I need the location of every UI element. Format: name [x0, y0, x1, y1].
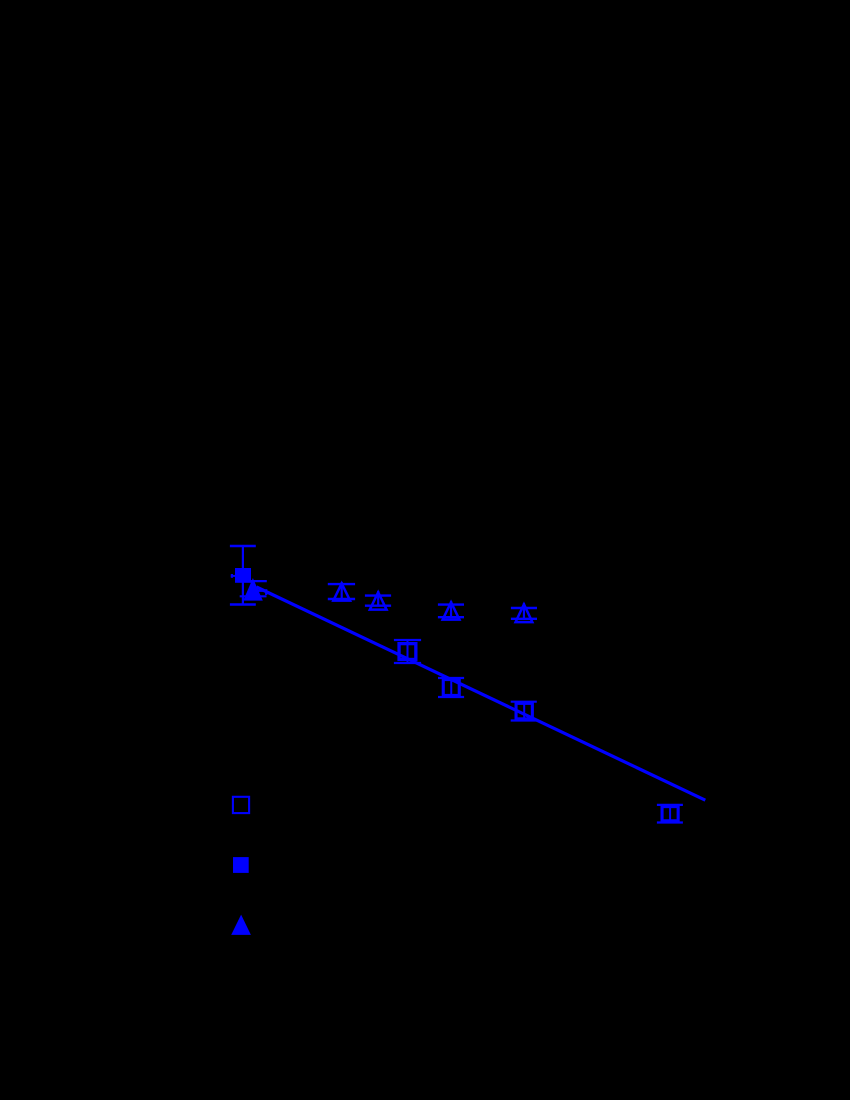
point S2 y-error top cap — [438, 677, 464, 679]
point T4 y-error bottom cap — [511, 618, 537, 620]
point T2 y-error bottom cap — [365, 605, 391, 607]
point P2 marker filled triangle — [243, 578, 263, 601]
point T1 marker open triangle — [333, 583, 350, 600]
point P1 y-error top cap — [230, 545, 256, 547]
point P1 marker filled square — [235, 568, 251, 583]
point T2 y-error line — [377, 591, 379, 606]
point S1 y-error bottom cap — [394, 662, 421, 664]
point T1 y-error top cap — [328, 583, 355, 585]
legend open square marker — [233, 797, 249, 813]
point S4 y-error line — [669, 805, 671, 823]
point S4 y-error top cap — [657, 804, 683, 806]
point T4 y-error line — [523, 603, 525, 619]
point P1 y-error bottom cap — [230, 603, 256, 605]
point S4 y-error bottom cap — [657, 821, 683, 823]
point P1 y-error bar — [242, 546, 244, 605]
point P2 x-error stub — [253, 590, 266, 592]
point T3 y-error line — [450, 601, 452, 617]
point P1 x-error stub — [231, 575, 236, 577]
point S3 y-error top cap — [511, 701, 537, 703]
point S4 marker open square — [662, 807, 678, 821]
point T2 marker open triangle — [370, 592, 387, 609]
point S2 y-error line — [450, 678, 452, 697]
point S3 marker open square — [516, 703, 532, 719]
point S3 y-error line — [523, 702, 525, 721]
point T1 y-error bottom cap — [328, 598, 355, 600]
point T3 y-error bottom cap — [438, 616, 464, 618]
point T3 y-error top cap — [438, 603, 464, 605]
point S2 y-error bottom cap — [438, 696, 464, 698]
point P1 x-error left cap — [231, 574, 233, 578]
legend filled square marker — [233, 857, 249, 873]
point S2 marker open square — [443, 680, 459, 696]
point P2 y-error top cap — [240, 580, 267, 582]
point T4 marker open triangle — [516, 604, 533, 622]
point T4 y-error top cap — [511, 607, 537, 609]
point P2 x-error right cap — [265, 589, 267, 595]
point T1 y-error line — [341, 582, 343, 599]
point S1 y-error line — [407, 640, 409, 663]
point T2 y-error top cap — [365, 594, 391, 596]
fit line — [257, 587, 706, 800]
point S3 y-error bottom cap — [511, 719, 537, 721]
point S1 y-error top cap — [394, 639, 421, 641]
point P2 y-error bottom cap — [240, 595, 267, 597]
point T3 marker open triangle — [443, 602, 460, 619]
legend filled triangle marker — [231, 915, 251, 935]
point S1 marker open square — [399, 644, 416, 660]
